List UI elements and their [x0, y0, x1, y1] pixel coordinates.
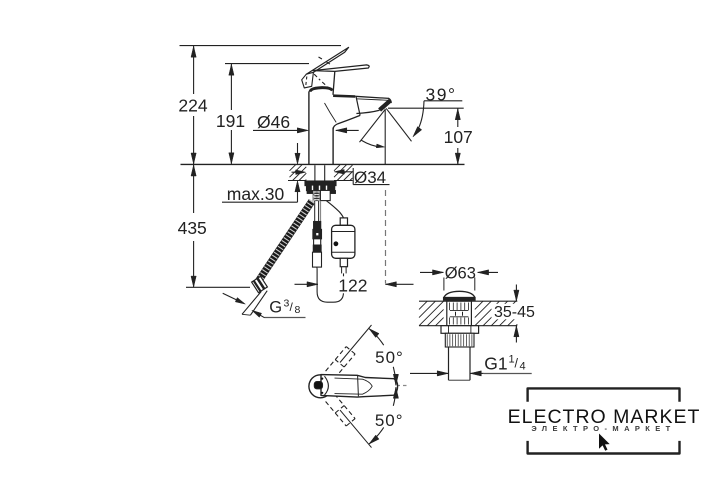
svg-text:4: 4 [520, 361, 526, 373]
svg-text:50°: 50° [375, 411, 404, 430]
svg-text:107: 107 [444, 127, 473, 147]
svg-text:8: 8 [295, 304, 301, 316]
svg-text:ЭЛЕКТРО-МАРКЕТ: ЭЛЕКТРО-МАРКЕТ [531, 424, 675, 433]
svg-text:max.30: max.30 [227, 184, 285, 204]
svg-text:435: 435 [178, 218, 207, 238]
svg-text:191: 191 [216, 111, 245, 131]
svg-text:/: / [290, 300, 294, 314]
svg-text:39°: 39° [426, 84, 457, 104]
svg-text:G1: G1 [484, 353, 507, 373]
svg-text:Ø34: Ø34 [354, 168, 386, 187]
svg-text:Ø63: Ø63 [445, 264, 476, 282]
svg-text:122: 122 [338, 276, 367, 296]
svg-text:/: / [515, 357, 519, 371]
svg-text:35-45: 35-45 [494, 304, 535, 321]
svg-text:Ø46: Ø46 [257, 112, 290, 132]
svg-text:G: G [269, 299, 282, 317]
svg-text:50°: 50° [375, 348, 404, 367]
svg-text:224: 224 [178, 96, 207, 116]
